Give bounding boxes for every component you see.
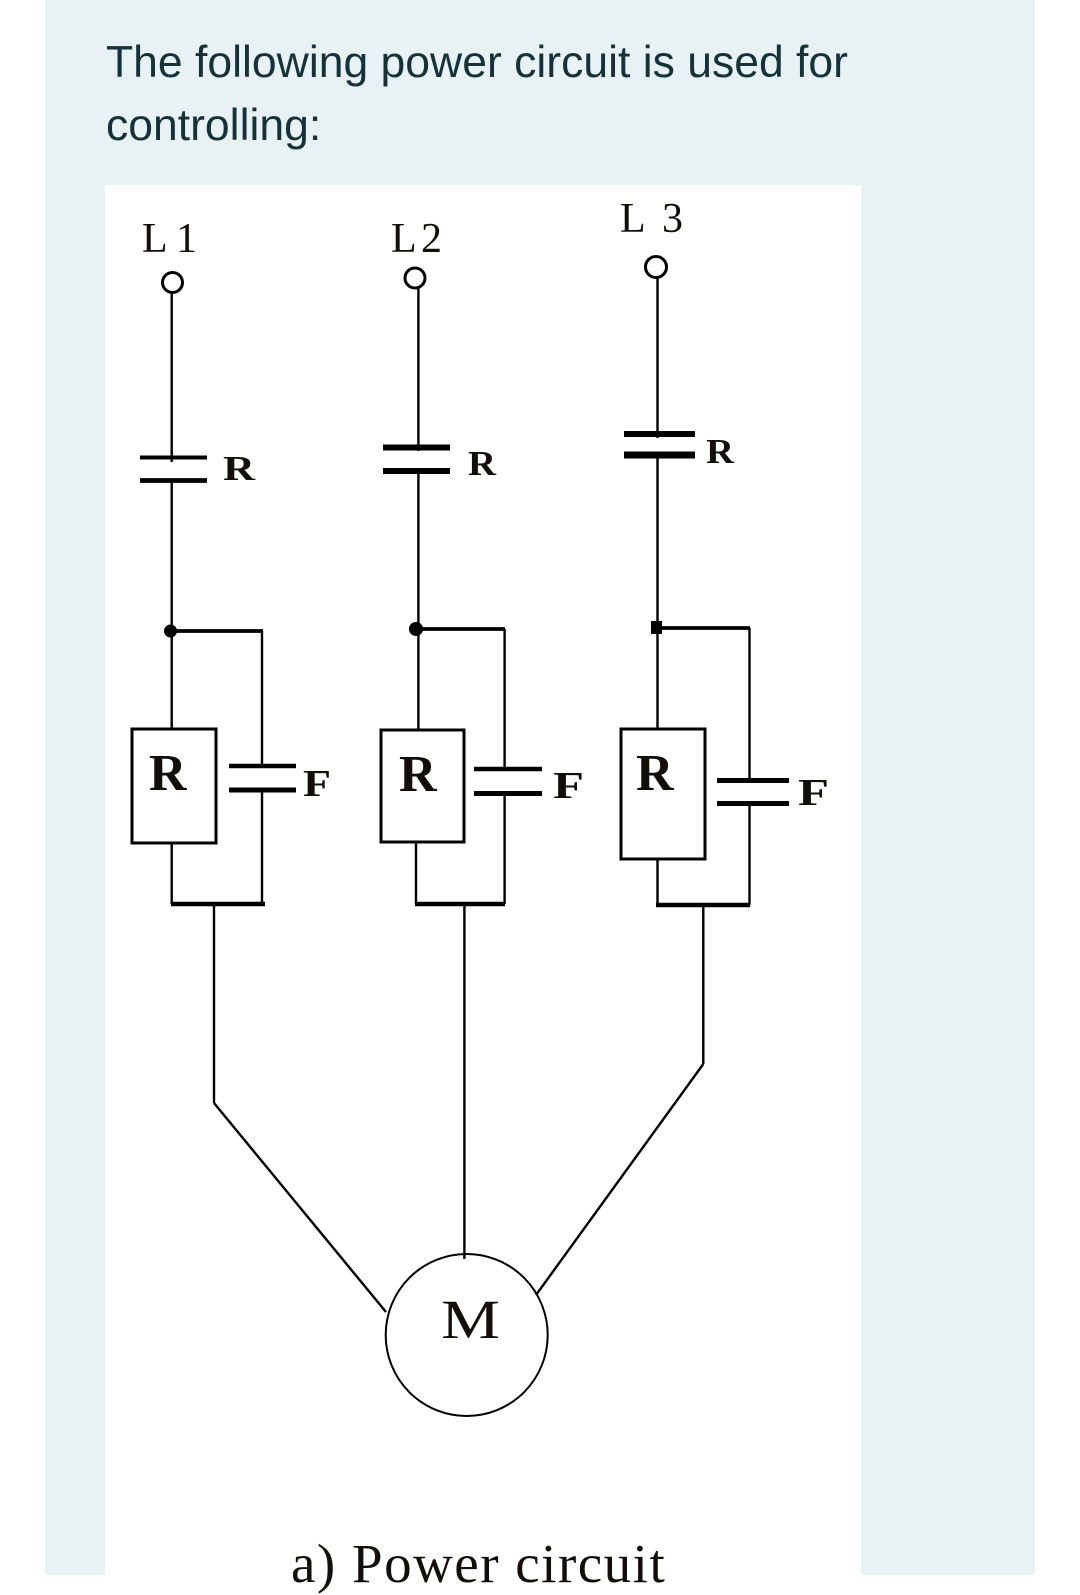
contact F3 xyxy=(717,781,789,804)
wire L2 to contact R2 xyxy=(417,289,419,452)
svg-text:R: R xyxy=(223,449,256,488)
wire contact R1 to node A1 xyxy=(170,480,172,631)
bottom bar 3 xyxy=(656,903,750,908)
wire drop 3 xyxy=(702,905,704,1064)
wire resistor R2 to bottom bar 2 xyxy=(415,842,417,904)
contact R2 xyxy=(383,448,450,472)
terminal L1 xyxy=(163,273,183,293)
svg-text:R: R xyxy=(399,746,438,803)
bottom bar 2 xyxy=(415,902,505,907)
resistor R2 box xyxy=(381,730,464,842)
svg-text:L1: L1 xyxy=(142,216,197,262)
wire node A1 horizontal xyxy=(171,629,263,633)
resistor R3 box xyxy=(621,729,705,859)
svg-text:R: R xyxy=(468,444,497,483)
svg-text:M: M xyxy=(441,1289,500,1350)
wire right branch 2 down xyxy=(503,629,505,769)
wire L3 to contact R3 xyxy=(656,278,658,438)
contact F2 xyxy=(474,769,542,794)
node A2 junction dot xyxy=(409,622,423,636)
terminal L3 xyxy=(646,257,667,278)
wire diagonal 3 to motor xyxy=(536,1064,703,1295)
caption xyxy=(291,1532,666,1595)
svg-text:R: R xyxy=(636,745,675,802)
wire right branch 1 down xyxy=(261,631,263,766)
wire contact F2 to bottom bar 2 xyxy=(503,794,505,905)
wire node A2 to resistor R2 xyxy=(417,629,419,730)
wire contact F1 to bottom bar 1 xyxy=(261,790,263,904)
wire diagonal 1 to motor xyxy=(214,1103,386,1312)
svg-text:F: F xyxy=(553,765,584,807)
contact R3 xyxy=(624,434,695,455)
node A1 junction dot xyxy=(164,625,177,638)
contact F1 xyxy=(229,766,296,790)
motor M circle xyxy=(386,1254,548,1416)
wire contact F3 to bottom bar 3 xyxy=(748,804,750,906)
wire node A2 horizontal xyxy=(416,627,505,631)
svg-text:L2: L2 xyxy=(391,216,442,262)
wire drop 2 to motor xyxy=(463,904,465,1259)
svg-text:L3: L3 xyxy=(620,196,683,242)
terminal L2 xyxy=(405,268,425,288)
resistor R1 box xyxy=(132,729,216,843)
wire node A3 horizontal xyxy=(657,626,750,630)
wire contact R3 to node A3 xyxy=(656,455,658,628)
bottom bar 1 xyxy=(171,902,265,907)
wire resistor R3 to bottom bar 3 xyxy=(656,859,658,905)
wire node A1 to resistor R1 xyxy=(170,631,172,729)
svg-text:R: R xyxy=(706,432,735,471)
wire right branch 3 down xyxy=(748,628,750,781)
wire resistor R1 to bottom bar 1 xyxy=(170,843,172,904)
svg-text:R: R xyxy=(149,745,188,802)
node A3 junction dot xyxy=(651,621,662,634)
svg-text:F: F xyxy=(303,763,331,805)
svg-text:F: F xyxy=(798,772,829,814)
wire L1 to contact R1 xyxy=(170,293,172,462)
wire drop 1 xyxy=(213,904,215,1103)
wire contact R2 to node A2 xyxy=(417,471,419,629)
wire node A3 to resistor R3 xyxy=(656,628,658,729)
contact R1 (phase 1 run contact) xyxy=(140,458,207,481)
